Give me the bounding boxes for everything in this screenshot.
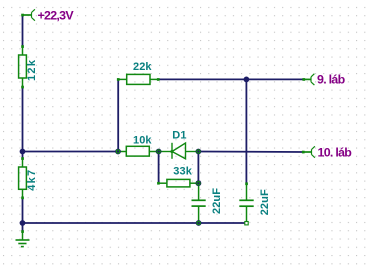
svg-text:22uF: 22uF: [211, 188, 223, 214]
svg-text:9. láb: 9. láb: [317, 73, 346, 87]
svg-text:+22,3V: +22,3V: [38, 8, 75, 22]
svg-text:33k: 33k: [173, 165, 192, 177]
svg-text:10. láb: 10. láb: [318, 145, 353, 159]
svg-text:12k: 12k: [26, 59, 38, 81]
svg-text:22uF: 22uF: [259, 189, 271, 215]
svg-text:D1: D1: [172, 130, 186, 142]
svg-text:10k: 10k: [133, 134, 152, 146]
svg-text:4k7: 4k7: [26, 169, 38, 191]
svg-text:22k: 22k: [133, 61, 152, 73]
